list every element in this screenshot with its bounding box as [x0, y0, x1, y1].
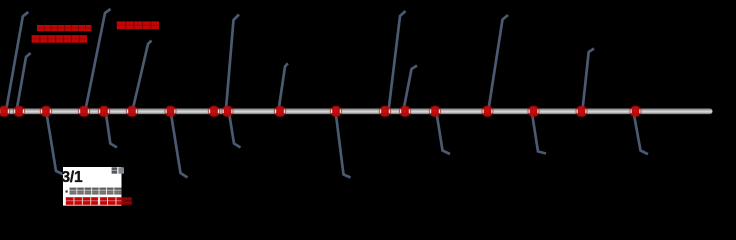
wire: leader line L3 (above bar, long, x~86)	[85, 9, 111, 113]
wire: leader line L4 (above bar, medium, x~133)	[132, 41, 152, 113]
wire: leader line B8 (below bar, x~634)	[634, 113, 648, 155]
wire: leader line B1 (below bar to white box)	[46, 113, 63, 175]
wire: leader line B5 (below bar, long, x~336)	[336, 113, 351, 178]
label: gray glyphs over box top-right corner	[112, 167, 124, 173]
timeline bar	[0, 108, 713, 114]
wire: leader line L9 (above bar, long, x~489)	[488, 15, 508, 113]
wire: leader line B4 (below bar, short, x~230)	[229, 113, 241, 148]
wire: leader line L10 (above bar, medium, x~582)	[582, 49, 594, 113]
event dot 17 (x=581.5)	[576, 106, 588, 117]
event dot 3 (x=46)	[40, 106, 52, 117]
event dot 9 (x=227.5)	[222, 106, 234, 117]
event dot 13 (x=405)	[399, 106, 411, 117]
wire: leader line L5 (above bar, long, x~226)	[226, 15, 239, 113]
wire: leader line B6 (below bar, x~437)	[437, 113, 451, 155]
label: black body text in white box	[66, 188, 122, 195]
label: red emphasized text bottom line	[66, 197, 132, 205]
wire: leader line L2 (above bar, short, x~17)	[16, 53, 30, 113]
event dot 16 (x=533.5)	[528, 106, 540, 117]
label: red annotation text top-left line 2	[32, 35, 87, 43]
label: red annotation text x~114-159	[117, 21, 159, 29]
wire: leader line L8 (above bar, short, x~404)	[403, 66, 417, 113]
wire: leader line B3 (below bar, long, x~171)	[171, 113, 188, 178]
label: date 3/1	[62, 169, 83, 187]
callout white box	[63, 167, 122, 206]
event dot 15 (x=487.5)	[482, 106, 494, 117]
event dot 4 (x=84)	[78, 106, 90, 117]
event dot 10 (x=280)	[274, 106, 286, 117]
event dot 5 (x=104)	[98, 106, 110, 117]
event dot 6 (x=132)	[126, 106, 138, 117]
event dot 2 (x=19)	[13, 106, 25, 117]
wire: leader line B7 (below bar, x~532)	[532, 113, 546, 154]
label: red annotation text top-left line 1	[37, 25, 92, 31]
wire: leader line L6 (above bar, short, x~279)	[278, 63, 288, 112]
event dot 14 (x=435)	[429, 106, 441, 117]
wire: leader line B2 (below bar, short, x~106)	[106, 113, 117, 148]
event dot 8 (x=214)	[208, 106, 220, 117]
wire: leader line L7 (above bar, long, x~389)	[388, 11, 405, 113]
event dot 18 (x=635.5)	[630, 106, 642, 117]
event dot 12 (x=385)	[379, 106, 391, 117]
wire: leader line L1 (above bar, far left)	[6, 12, 29, 113]
event dot 1 (x=4)	[0, 106, 10, 117]
event dot 11 (x=336)	[330, 106, 342, 117]
event dot 7 (x=170.5)	[165, 106, 177, 117]
